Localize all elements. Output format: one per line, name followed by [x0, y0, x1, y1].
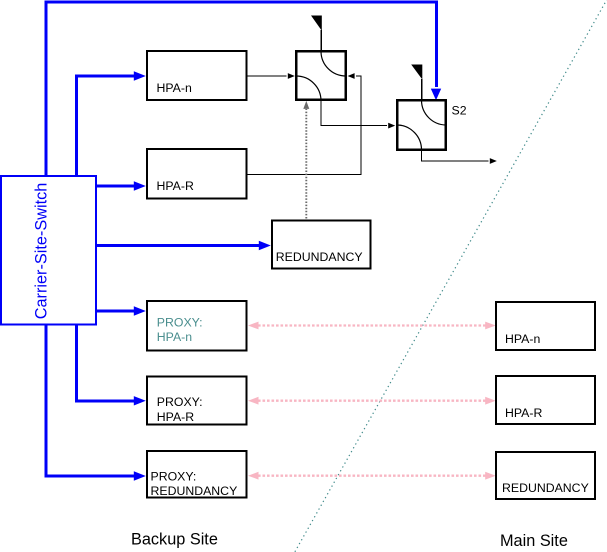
svg-text:HPA-n: HPA-n: [157, 81, 192, 95]
wire blue to HPA-n: [77, 76, 135, 176]
Carrier-Site-Switch box: [1, 176, 96, 325]
box HPA-R (main): [496, 376, 595, 424]
svg-text:S2: S2: [452, 104, 467, 118]
switch S1 arc top-to-right: [321, 52, 346, 77]
svg-text:HPA-R: HPA-R: [157, 410, 194, 424]
box REDUNDANCY (main): [496, 452, 595, 499]
svg-text:REDUNDANCY: REDUNDANCY: [276, 250, 363, 264]
wire S1 bottom to S2 left input: [321, 101, 387, 126]
wire HPA-n output to S1: [246, 75, 287, 77]
svg-text:PROXY:: PROXY:: [157, 316, 203, 330]
wire blue to HPA-R: [96, 185, 134, 188]
flag F2: [411, 65, 422, 80]
wire blue to PROXY REDUNDANCY: [46, 325, 134, 476]
diagonal site-boundary dotted line: [294, 0, 607, 552]
gray dotted redundancy-to-S1 arrow: [305, 109, 307, 219]
flag F2 pole: [421, 79, 423, 101]
svg-text:HPA-n: HPA-n: [157, 330, 192, 344]
switch S1 arc left-to-bottom: [296, 76, 321, 101]
switch S2 square: [397, 100, 446, 150]
box PROXY REDUNDANCY: [147, 451, 247, 498]
box HPA-n (backup): [147, 51, 247, 100]
switch S2 arc left-to-bottom: [398, 125, 422, 150]
box PROXY HPA-R: [147, 377, 247, 425]
box REDUNDANCY (backup): [272, 221, 371, 269]
pink dashed link PROXY HPA-R to main HPA-R: [258, 400, 486, 402]
wire S2 bottom output arrow: [422, 151, 489, 161]
wire blue to REDUNDANCY: [96, 244, 259, 247]
svg-text:Main Site: Main Site: [500, 532, 568, 550]
svg-text:REDUNDANCY: REDUNDANCY: [502, 481, 589, 495]
wire blue to PROXY HPA-R: [77, 325, 135, 401]
switch S1 square: [296, 51, 346, 100]
svg-text:HPA-R: HPA-R: [157, 179, 194, 193]
flag F1: [311, 16, 322, 31]
svg-text:Carrier-Site-Switch: Carrier-Site-Switch: [33, 183, 51, 320]
svg-text:PROXY:: PROXY:: [151, 470, 197, 484]
svg-text:PROXY:: PROXY:: [157, 395, 203, 409]
pink dashed link PROXY HPA-n to main HPA-n: [258, 324, 486, 326]
switch S2 arc top-to-right: [422, 101, 447, 126]
wire blue trunk: switch top to S2: [46, 2, 437, 176]
wire HPA-R output to S1 right input: [247, 76, 361, 175]
box PROXY HPA-n: [147, 301, 247, 351]
svg-text:HPA-R: HPA-R: [505, 406, 542, 420]
pink dashed link PROXY REDUNDANCY to main REDUNDANCY: [258, 475, 486, 477]
svg-text:HPA-n: HPA-n: [505, 332, 540, 346]
box HPA-R (backup): [147, 149, 247, 199]
wire blue to PROXY HPA-n: [96, 310, 134, 313]
box HPA-n (main): [496, 302, 595, 350]
svg-text:Backup Site: Backup Site: [131, 531, 218, 549]
wire blue arrowhead into S2 top: [431, 89, 441, 101]
flag F1 pole: [320, 30, 322, 52]
svg-text:REDUNDANCY: REDUNDANCY: [151, 484, 238, 498]
